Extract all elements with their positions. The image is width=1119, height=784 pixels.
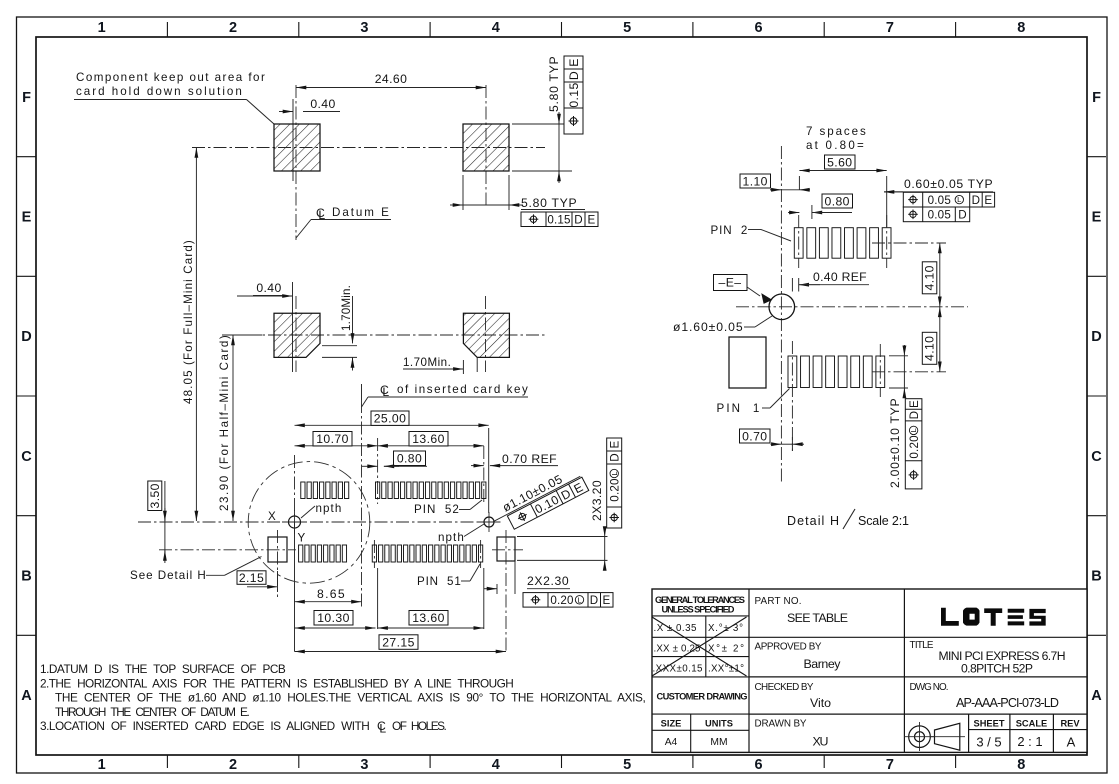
svg-text:E: E: [22, 210, 32, 226]
pad left 2.30x3.20: [159, 530, 296, 597]
dim 48.05 For Full-Mini Card: [182, 148, 196, 522]
svg-text:0.8PITCH 52P: 0.8PITCH 52P: [961, 662, 1033, 676]
svg-text:npth: npth: [316, 502, 342, 515]
svg-text:REV: REV: [1060, 719, 1080, 729]
svg-text:F: F: [22, 90, 31, 106]
svg-text:0.20: 0.20: [908, 435, 921, 458]
svg-text:C: C: [1091, 449, 1102, 465]
detail H: horizontal axis: [736, 306, 968, 308]
svg-text:Datum E: Datum E: [332, 206, 389, 219]
label PIN 1: [717, 389, 790, 416]
svg-text:0.20: 0.20: [609, 478, 622, 501]
svg-text:2: 2: [229, 757, 237, 773]
pad right 2.30x3.20: [492, 530, 523, 652]
svg-text:CHECKED BY: CHECKED BY: [755, 682, 814, 693]
sheet / scale / rev cells: [969, 714, 1087, 752]
svg-text:D: D: [21, 329, 31, 345]
svg-text:2X3.20: 2X3.20: [590, 480, 604, 521]
svg-text:E: E: [984, 194, 992, 207]
svg-text:UNITS: UNITS: [705, 719, 733, 729]
svg-text:TITLE: TITLE: [910, 640, 934, 651]
svg-text:.X ± 0.35: .X ± 0.35: [654, 623, 698, 634]
svg-text:23.90 (For Half–Mini Card): 23.90 (For Half–Mini Card): [218, 335, 231, 511]
extension: lower 13.60 verticals: [378, 568, 484, 629]
label: centerline of inserted card key: [362, 383, 529, 407]
svg-text:4: 4: [492, 20, 500, 36]
svg-text:APPROVED BY: APPROVED BY: [755, 642, 822, 653]
dim 10.30: [295, 611, 376, 629]
svg-text:THE CENTER OF THE ø1.60 AND ø1: THE CENTER OF THE ø1.60 AND ø1.10 HOLES.…: [55, 691, 646, 705]
svg-text:CUSTOMER DRAWING: CUSTOMER DRAWING: [657, 692, 748, 702]
svg-text:Component keep out area for: Component keep out area for: [76, 71, 265, 84]
dim 0.80 detail: [788, 194, 853, 219]
svg-text:D: D: [1091, 329, 1101, 345]
LOTES logo: [941, 608, 1046, 626]
svg-text:AP-AAA-PCI-073-LD: AP-AAA-PCI-073-LD: [956, 696, 1059, 710]
svg-text:SEE TABLE: SEE TABLE: [787, 611, 848, 625]
dim 0.40 top offset: [279, 97, 340, 181]
centerline: top-right hole vertical: [485, 85, 487, 208]
centerline: lower hole row: [225, 334, 545, 336]
dim ø1.10±0.05 with fcf 0.10 D E (rotated): [487, 463, 589, 536]
dwg no cell: [910, 682, 1060, 710]
keep-out pad bottom-left (hatched, chamfer): [274, 313, 320, 357]
svg-text:24.60: 24.60: [375, 72, 408, 86]
datum label -E-: [714, 275, 772, 304]
svg-text:8: 8: [1017, 20, 1025, 36]
note: 7 spaces at 0.80=: [806, 125, 866, 152]
extension: pin52 centerline vertical: [378, 438, 484, 504]
svg-text:0.15: 0.15: [547, 214, 570, 227]
svg-text:5: 5: [623, 757, 631, 773]
dim 13.60 upper: [378, 432, 484, 447]
svg-text:E: E: [908, 400, 921, 408]
customer drawing cell: [657, 692, 748, 702]
npth hole left (origin): [282, 510, 307, 534]
svg-text:E: E: [567, 58, 581, 67]
svg-text:Y: Y: [298, 532, 306, 545]
pin row upper-left (8 pads): [301, 482, 349, 499]
svg-text:0.40: 0.40: [310, 97, 335, 111]
dim 24.60: [296, 72, 486, 88]
svg-text:Scale 2:1: Scale 2:1: [858, 514, 909, 528]
svg-text:8: 8: [1017, 757, 1025, 773]
detail pad 2.30x3.20: [729, 337, 766, 388]
dim 23.90 For Half-Mini Card: [218, 335, 262, 521]
svg-text:SHEET: SHEET: [974, 719, 1005, 729]
svg-text:ø1.60±0.05: ø1.60±0.05: [673, 320, 743, 334]
dim 4.10 lower: [922, 307, 940, 372]
dim 0.40 lower offset: [237, 281, 293, 372]
dim 4.10 upper: [922, 243, 940, 307]
fcf position 0.15 D E (vertical): [564, 56, 583, 134]
svg-text:4.10: 4.10: [923, 336, 937, 361]
svg-text:1.10: 1.10: [743, 174, 768, 188]
dim 3.50: [148, 481, 162, 511]
fcf position 0.05 D: [903, 207, 969, 222]
svg-text:PIN 51: PIN 51: [417, 575, 461, 588]
svg-text:D: D: [590, 594, 599, 607]
extension: lower row end centerlines: [374, 540, 480, 568]
svg-text:5.80 TYP: 5.80 TYP: [547, 56, 561, 112]
svg-text:7: 7: [886, 20, 894, 36]
dim 5.60: [799, 155, 886, 227]
part no cell: [755, 596, 849, 625]
svg-text:A: A: [1067, 735, 1076, 750]
svg-text:3.LOCATION OF INSERTED CARD ED: 3.LOCATION OF INSERTED CARD EDGE IS ALIG…: [40, 719, 370, 733]
svg-text:1.70Min.: 1.70Min.: [340, 285, 353, 331]
detail H: datum E vertical centerline: [780, 146, 782, 483]
approved by cell: [755, 642, 842, 672]
svg-text:7: 7: [886, 757, 894, 773]
svg-text:X: X: [268, 510, 276, 523]
svg-text:SIZE: SIZE: [661, 719, 682, 729]
svg-text:npth: npth: [438, 531, 464, 544]
svg-text:SCALE: SCALE: [1016, 719, 1048, 729]
dim 0.80 pitch: [362, 451, 427, 466]
svg-text:D: D: [908, 411, 921, 420]
svg-text:48.05 (For Full–Mini Card): 48.05 (For Full–Mini Card): [182, 240, 195, 404]
dim 5.80 TYP horizontal: [450, 175, 585, 210]
svg-text:0.05: 0.05: [928, 194, 951, 207]
general tolerances table: [652, 595, 749, 677]
svg-text:E: E: [588, 214, 596, 227]
svg-text:5.80 TYP: 5.80 TYP: [521, 196, 577, 210]
checked by cell: [755, 682, 832, 710]
title cell: [910, 640, 1066, 676]
svg-text:0.60±0.05 TYP: 0.60±0.05 TYP: [904, 177, 993, 191]
svg-text:1.DATUM D IS THE TOP SURFACE O: 1.DATUM D IS THE TOP SURFACE OF PCB: [40, 662, 286, 676]
fcf position 0.05 L D E: [903, 192, 994, 207]
svg-text:25.00: 25.00: [374, 412, 407, 426]
svg-text:GENERAL TOLERANCES: GENERAL TOLERANCES: [655, 595, 745, 605]
svg-text:5.60: 5.60: [827, 155, 852, 169]
detail pin row upper (8 pads): [794, 228, 891, 259]
svg-text:2 : 1: 2 : 1: [1017, 734, 1042, 749]
svg-text:4.10: 4.10: [923, 265, 937, 290]
dim 5.80 TYP vertical: [512, 56, 572, 183]
svg-text:E: E: [609, 440, 622, 448]
svg-text:D: D: [574, 214, 583, 227]
svg-text:10.70: 10.70: [316, 432, 349, 446]
svg-text:UNLESS SPECIFIED: UNLESS SPECIFIED: [662, 605, 735, 615]
label PIN 51: [417, 564, 480, 588]
svg-text:Vito: Vito: [810, 696, 831, 710]
dim 27.15: [295, 635, 507, 652]
label Y: [298, 532, 306, 545]
dim 2.15: [237, 571, 278, 592]
extension: 25.00 right / npth vertical: [488, 428, 490, 513]
svg-text:0.40: 0.40: [256, 281, 281, 295]
svg-text:.XX ± 0.25: .XX ± 0.25: [654, 644, 702, 655]
svg-text:0.05: 0.05: [928, 209, 951, 222]
svg-text:.XXX±0.15: .XXX±0.15: [653, 664, 704, 675]
svg-text:Detail H: Detail H: [787, 514, 839, 528]
svg-text:MM: MM: [710, 737, 727, 748]
svg-text:D: D: [958, 209, 967, 222]
svg-text:7 spaces: 7 spaces: [806, 125, 866, 138]
svg-text:0.20: 0.20: [550, 594, 573, 607]
svg-text:10.30: 10.30: [317, 611, 350, 625]
dim 0.70 REF: [471, 452, 558, 466]
detail pin row lower end centerlines: [792, 341, 946, 451]
svg-text:0.80: 0.80: [397, 452, 422, 466]
label Detail H / Scale 2:1: [787, 509, 909, 529]
label npth left: [301, 502, 342, 518]
detail pin row lower (8 pads): [788, 356, 885, 388]
label X: [268, 510, 276, 523]
svg-text:Barney: Barney: [804, 657, 842, 671]
keep-out pad top-left (hatched): [274, 124, 320, 171]
svg-text:D: D: [972, 194, 981, 207]
pin row lower-left (8 pads): [299, 545, 347, 562]
svg-text:0.15: 0.15: [567, 82, 581, 107]
svg-text:B: B: [21, 569, 31, 585]
fcf position 0.20 L D E (below 2X2.30): [523, 593, 613, 608]
svg-text:6: 6: [755, 757, 763, 773]
dim 2X2.30: [484, 561, 570, 594]
svg-text:L: L: [318, 208, 325, 222]
svg-text:1: 1: [98, 757, 106, 773]
svg-text:X.°± 3°: X.°± 3°: [708, 623, 743, 634]
datum E hole ø1.60: [769, 294, 795, 320]
detail boundary circle H: [248, 462, 370, 584]
pin row upper-right (18 pads, ends at PIN 52): [375, 482, 485, 499]
svg-text:B: B: [1091, 569, 1101, 585]
svg-text:2: 2: [229, 20, 237, 36]
svg-text:PIN 1: PIN 1: [717, 402, 760, 415]
svg-text:3: 3: [360, 20, 368, 36]
dim 25.00: [295, 411, 489, 426]
svg-text:PART NO.: PART NO.: [755, 596, 802, 607]
svg-text:27.15: 27.15: [382, 635, 415, 649]
svg-text:C: C: [21, 449, 32, 465]
dim 0.70 detail: [740, 429, 805, 451]
projection symbol: [904, 722, 965, 751]
dim 2.00±0.10 TYP with fcf 0.20 L D E (vertical): [888, 345, 908, 488]
svg-text:L: L: [577, 595, 581, 604]
notes text: [40, 662, 646, 735]
svg-text:5: 5: [623, 20, 631, 36]
svg-text:3: 3: [360, 757, 368, 773]
label ø1.60±0.05: [673, 316, 772, 334]
npth hole right: [479, 512, 499, 532]
svg-text:L: L: [610, 471, 619, 475]
centerline: top-left hole vertical: [295, 85, 297, 240]
X axis centerline: [138, 521, 502, 523]
label: component keep out note: [74, 71, 274, 124]
svg-text:E: E: [603, 594, 611, 607]
pin row lower-right (18 pads, ends at PIN 51): [372, 545, 482, 562]
label See Detail H: [130, 557, 262, 583]
svg-text:2.15: 2.15: [239, 571, 264, 585]
centerline: lower-left hole vertical: [295, 296, 297, 372]
svg-text:4: 4: [492, 757, 500, 773]
svg-text:of inserted card key: of inserted card key: [397, 383, 528, 396]
svg-text:13.60: 13.60: [412, 611, 445, 625]
dim 10.70: [295, 432, 378, 447]
label PIN 52: [414, 500, 482, 516]
drawn by cell: [755, 719, 829, 749]
svg-text:1.70Min.: 1.70Min.: [403, 356, 451, 369]
fcf position 0.15 D E (horizontal): [521, 212, 598, 227]
svg-text:8.65: 8.65: [317, 587, 345, 601]
size / units cells: [652, 714, 749, 752]
svg-text:L: L: [909, 428, 918, 432]
card key centerline vertical: [361, 384, 363, 608]
dim 0.60±0.05 TYP: [884, 177, 993, 192]
svg-text:OF HOLES.: OF HOLES.: [392, 719, 447, 733]
detail pin row upper end centerlines: [799, 215, 946, 268]
svg-text:F: F: [1092, 90, 1101, 106]
Y axis line: [294, 455, 296, 652]
svg-text:DWG NO.: DWG NO.: [910, 682, 949, 693]
svg-text:3.50: 3.50: [148, 483, 162, 508]
svg-text:card hold down solution: card hold down solution: [76, 85, 242, 98]
svg-text:E: E: [1092, 210, 1102, 226]
svg-text:A4: A4: [665, 737, 678, 748]
svg-text:–E–: –E–: [719, 276, 742, 290]
dim 2X3.20 with fcf 0.20 L D E (vertical): [517, 480, 608, 569]
svg-text:0.80: 0.80: [825, 194, 850, 208]
svg-text:6: 6: [755, 20, 763, 36]
dim 0.40 REF detail: [792, 270, 869, 292]
svg-text:D: D: [567, 71, 581, 80]
svg-text:2X2.30: 2X2.30: [527, 574, 569, 588]
label PIN 2: [711, 224, 792, 241]
svg-text:0.70 REF: 0.70 REF: [502, 452, 557, 466]
svg-text:THROUGH THE CENTER OF DATUM E.: THROUGH THE CENTER OF DATUM E.: [55, 705, 250, 719]
svg-text:1: 1: [98, 20, 106, 36]
dim 1.70Min horizontal: [403, 356, 477, 374]
svg-text:PIN 52: PIN 52: [414, 503, 459, 516]
svg-text:L: L: [379, 721, 386, 735]
svg-text:A: A: [1091, 688, 1102, 704]
svg-text:3 / 5: 3 / 5: [976, 735, 1001, 750]
svg-text:L: L: [957, 195, 961, 204]
svg-text:A: A: [21, 688, 32, 704]
dim 1.10: [740, 174, 810, 190]
svg-text:13.60: 13.60: [412, 432, 445, 446]
dim 1.70Min vertical: [322, 285, 357, 371]
svg-text:.XX°±1°: .XX°±1°: [708, 664, 744, 675]
label npth right: [438, 524, 484, 544]
svg-text:XU: XU: [813, 735, 829, 749]
title block frame: [652, 589, 1087, 752]
centerline: lower-right hole vertical: [485, 296, 487, 372]
svg-text:PIN 2: PIN 2: [711, 224, 748, 237]
svg-text:D: D: [609, 453, 622, 462]
svg-text:DRAWN BY: DRAWN BY: [755, 719, 807, 730]
label: centerline Datum E: [296, 206, 391, 238]
dim 8.65: [295, 587, 362, 602]
svg-text:2.THE HORIZONTAL AXIS FOR THE: 2.THE HORIZONTAL AXIS FOR THE PATTERN IS…: [40, 676, 514, 690]
keep-out pad top-right (hatched): [463, 124, 509, 171]
centerline: top hole row: [192, 147, 545, 149]
svg-text:0.70: 0.70: [742, 429, 767, 443]
svg-text:2.00±0.10 TYP: 2.00±0.10 TYP: [888, 398, 902, 488]
keep-out pad bottom-right (hatched, chamfer): [463, 313, 509, 357]
dim 13.60 lower: [378, 611, 484, 629]
svg-text:0.40 REF: 0.40 REF: [813, 270, 867, 284]
svg-text:See Detail H: See Detail H: [130, 569, 206, 582]
